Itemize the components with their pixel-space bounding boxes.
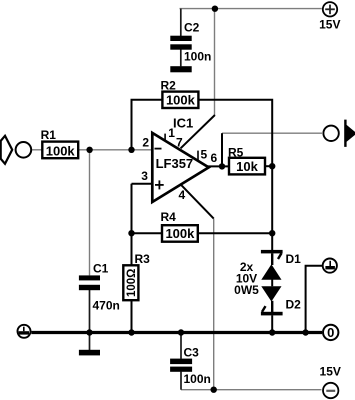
svg-text:10k: 10k: [236, 159, 258, 174]
svg-text:R5: R5: [228, 145, 244, 159]
svg-text:IC1: IC1: [173, 115, 193, 130]
svg-text:D1: D1: [286, 252, 302, 266]
svg-text:R1: R1: [41, 128, 57, 142]
svg-text:C2: C2: [184, 21, 200, 35]
svg-text:100n: 100n: [184, 50, 211, 64]
svg-text:R2: R2: [161, 78, 177, 92]
svg-text:2: 2: [142, 136, 149, 150]
svg-text:100Ω: 100Ω: [126, 269, 138, 297]
svg-text:15V: 15V: [319, 18, 340, 32]
svg-text:4: 4: [179, 188, 186, 202]
svg-text:100k: 100k: [46, 143, 76, 158]
svg-text:15V: 15V: [320, 364, 341, 378]
svg-text:6: 6: [211, 151, 218, 165]
svg-text:100k: 100k: [165, 226, 195, 241]
svg-text:3: 3: [141, 169, 148, 183]
svg-text:100n: 100n: [184, 372, 211, 386]
svg-text:LF357: LF357: [156, 156, 194, 171]
svg-text:R3: R3: [135, 252, 151, 266]
svg-text:C3: C3: [184, 346, 200, 360]
svg-text:0W5: 0W5: [234, 283, 259, 297]
svg-text:C1: C1: [93, 262, 109, 276]
svg-text:470n: 470n: [93, 298, 120, 312]
svg-text:7: 7: [176, 136, 183, 150]
svg-text:D2: D2: [286, 297, 302, 311]
svg-text:5: 5: [201, 148, 208, 162]
svg-text:100k: 100k: [166, 93, 196, 108]
svg-text:R4: R4: [161, 210, 177, 224]
svg-text:0: 0: [327, 325, 334, 340]
